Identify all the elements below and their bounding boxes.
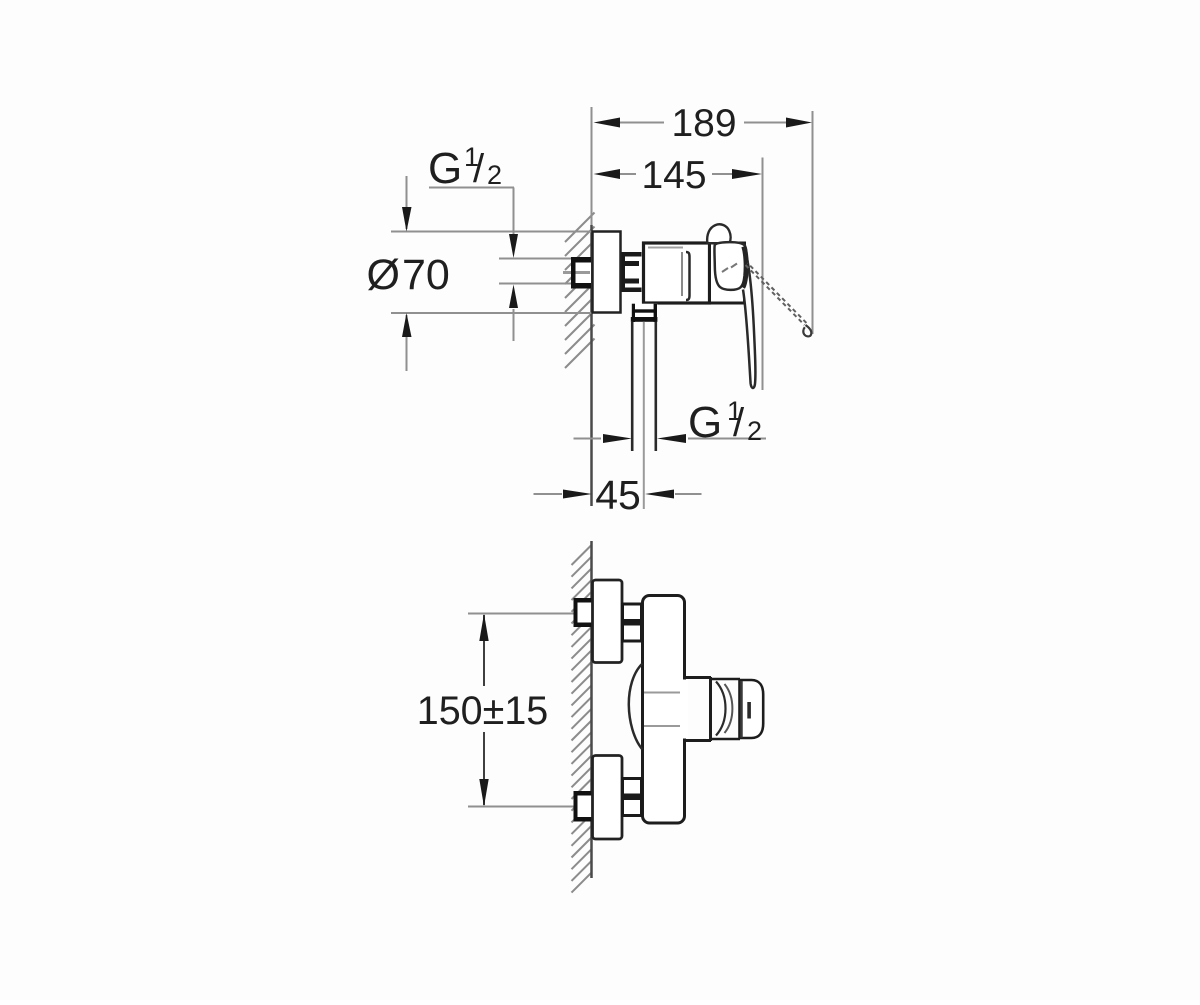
- body waist lines (bottom view): [644, 692, 683, 694]
- upper escutcheon (bottom view): [593, 580, 623, 663]
- hose union nut bands (top view): [632, 309, 655, 312]
- handle base (top view): [710, 243, 745, 303]
- ribbed S-union connector (top view): [622, 252, 642, 292]
- svg-text:G: G: [428, 144, 462, 193]
- wall hatch (bottom view): [572, 545, 592, 893]
- mixer body (top view): [644, 243, 710, 303]
- shower outlet shoulder (top view): [631, 304, 658, 322]
- lever blade (top view): [743, 248, 755, 389]
- lower escutcheon (bottom view): [593, 756, 623, 840]
- handle dome (top view): [707, 224, 730, 243]
- dimension 150±15: [468, 613, 591, 615]
- upper ribbed connector (bottom view): [623, 604, 642, 641]
- label G 1/2 (lower) with dimension arrows: [574, 438, 602, 440]
- svg-text:/: /: [473, 147, 485, 191]
- cartridge cover line (top view): [681, 252, 683, 296]
- svg-text:2: 2: [487, 160, 502, 190]
- mixer body (bottom view): [643, 596, 685, 824]
- svg-text:189: 189: [671, 102, 736, 145]
- inlet pipe lines (top view): [499, 258, 571, 260]
- handle cap (bottom view): [740, 680, 764, 738]
- grip highlight dashes: [722, 268, 728, 272]
- phantom lever position (dashed rod): [746, 265, 805, 325]
- lever blade junction shading (top view): [743, 247, 746, 288]
- dimension Ø 70: [391, 231, 592, 233]
- wall line / 189-145 left extension line (top view): [591, 107, 593, 231]
- svg-text:2: 2: [747, 416, 762, 446]
- dimension 189: [812, 111, 814, 334]
- svg-text:150±15: 150±15: [417, 689, 549, 733]
- dimension 145: [762, 158, 764, 391]
- handle hub (bottom view): [709, 677, 712, 741]
- hose connection lines (top view): [631, 322, 634, 451]
- phantom lever hook end: [803, 325, 811, 336]
- dimension 45: [534, 493, 563, 495]
- handle connector (bottom view): [684, 676, 711, 679]
- spout silhouette arc (bottom view): [629, 664, 643, 750]
- wall flange / escutcheon (top view): [593, 232, 621, 313]
- svg-text:G: G: [688, 398, 722, 447]
- handle connector gap cover: [680, 680, 688, 739]
- lower union nut (bottom view): [574, 791, 593, 822]
- handle grip blob (top view): [714, 242, 746, 290]
- upper union nut (bottom view): [574, 598, 593, 627]
- in-wall fitting (threaded socket): [563, 257, 591, 289]
- svg-text:/: /: [733, 401, 745, 445]
- svg-text:70: 70: [402, 251, 450, 299]
- svg-text:Ø: Ø: [367, 251, 400, 299]
- wall hatch (top view): [565, 213, 595, 369]
- wall line (bottom view): [590, 541, 593, 878]
- lower ribbed connector (bottom view): [623, 779, 642, 816]
- svg-text:45: 45: [595, 472, 641, 518]
- svg-text:145: 145: [641, 154, 706, 197]
